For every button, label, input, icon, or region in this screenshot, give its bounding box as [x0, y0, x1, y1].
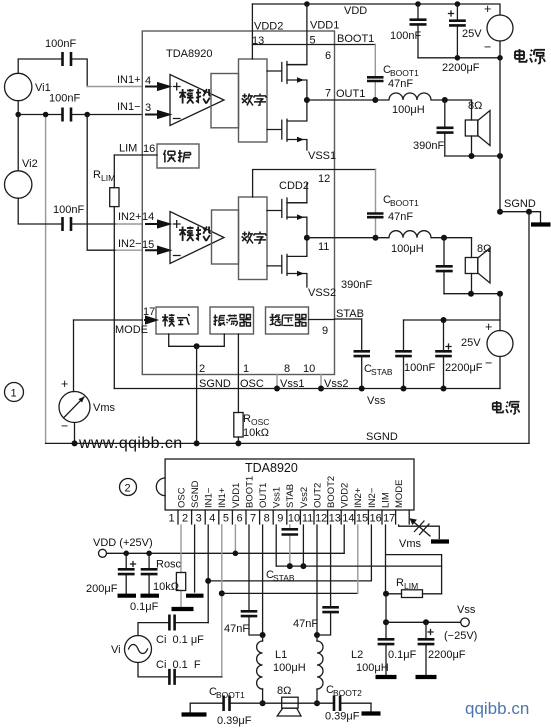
- svg-text:2200μF: 2200μF: [428, 649, 466, 661]
- svg-text:4: 4: [209, 513, 215, 525]
- ground SGND: [186, 594, 204, 598]
- wire pin 3 IN1-: [207, 525, 209, 623]
- wire IN1- rail: [18, 114, 142, 116]
- svg-text:14: 14: [142, 211, 154, 223]
- capacitor 2200uF supply: [456, 4, 458, 58]
- op-amp ch2 (analog): [170, 212, 224, 264]
- svg-text:10: 10: [303, 363, 315, 375]
- svg-text:VSS1: VSS1: [308, 150, 336, 162]
- svg-text:390nF: 390nF: [341, 279, 372, 291]
- svg-text:qqibb.cn: qqibb.cn: [465, 699, 529, 718]
- mode/osc ground bus: [169, 334, 225, 346]
- wire SGND to bottom rail: [528, 212, 530, 444]
- svg-text:100nF: 100nF: [390, 30, 421, 42]
- svg-text:Vi: Vi: [111, 644, 121, 656]
- svg-text:IN1+: IN1+: [217, 487, 228, 508]
- svg-text:IN2+: IN2+: [118, 211, 142, 223]
- oscillator box: [210, 307, 254, 334]
- wire speaker return ch2: [444, 293, 500, 295]
- resistor RLIM: [113, 155, 115, 389]
- MOSFET Q4 low-side ch2: [281, 255, 283, 273]
- svg-text:OUT2: OUT2: [312, 483, 323, 508]
- pin 15 arrow: [145, 247, 169, 254]
- svg-text:STAB: STAB: [371, 367, 393, 377]
- svg-text:3: 3: [196, 513, 202, 525]
- capacitor 100nF supply: [417, 4, 419, 58]
- ground right: [370, 703, 372, 711]
- wire pin 17 MODE to probe: [399, 525, 440, 539]
- wire Vi1 top to cap: [18, 59, 62, 73]
- pin 3 arrow: [145, 111, 169, 118]
- svg-text:CDD2: CDD2: [279, 180, 309, 192]
- ground 0.1uF: [141, 594, 160, 598]
- svg-text:−: −: [485, 356, 492, 370]
- svg-text:BOOT1: BOOT1: [390, 68, 419, 78]
- speaker 8ohm ch1: [471, 100, 473, 156]
- svg-text:BOOT1: BOOT1: [244, 476, 255, 508]
- svg-text:+: +: [484, 2, 491, 16]
- svg-text:3: 3: [145, 102, 151, 114]
- svg-text:−: −: [484, 40, 491, 54]
- svg-text:Vi2: Vi2: [22, 158, 38, 170]
- svg-text:+: +: [61, 377, 68, 391]
- terminal Vss: [461, 618, 470, 627]
- svg-text:47nF: 47nF: [224, 623, 249, 635]
- pin 14 arrow: [145, 221, 169, 228]
- svg-text:100μH: 100μH: [356, 662, 389, 674]
- regulator box: [266, 307, 309, 334]
- wire SGND node to supply2: [499, 294, 501, 331]
- node OUT2: [304, 235, 310, 241]
- svg-text:R: R: [243, 413, 251, 425]
- svg-text:0.39μF: 0.39μF: [325, 711, 360, 723]
- svg-text:Vms: Vms: [93, 402, 116, 414]
- svg-text:IN1+: IN1+: [117, 74, 141, 86]
- wire pin 5 VDD1: [234, 525, 236, 553]
- svg-text:IN1−: IN1−: [204, 487, 215, 508]
- svg-text:IN2+: IN2+: [353, 487, 364, 508]
- svg-text:11: 11: [318, 241, 329, 253]
- svg-text:STAB: STAB: [285, 484, 296, 508]
- svg-text:BOOT1: BOOT1: [216, 690, 245, 700]
- power label: [515, 49, 527, 62]
- svg-text:16: 16: [143, 143, 155, 155]
- inductor L2 100uH: [316, 635, 318, 703]
- svg-text:10: 10: [288, 513, 300, 525]
- wire caps bottom: [418, 57, 500, 59]
- svg-text:13: 13: [329, 513, 341, 525]
- Vss rail: [114, 388, 500, 390]
- svg-text:www.qqibb.cn: www.qqibb.cn: [78, 435, 183, 452]
- svg-text:9: 9: [277, 513, 283, 525]
- svg-text:8: 8: [284, 363, 290, 375]
- svg-text:Ci 0.1 μF: Ci 0.1 μF: [156, 634, 204, 646]
- svg-text:47nF: 47nF: [388, 211, 413, 223]
- svg-text:OUT1: OUT1: [336, 88, 365, 100]
- power label bottom: [493, 401, 504, 412]
- svg-text:5: 5: [223, 513, 229, 525]
- wire pin 4 IN1+: [221, 525, 223, 677]
- wire pin 11 OUT2: [316, 525, 318, 635]
- capacitor 200uF: [125, 553, 127, 593]
- wire VDD rail: [107, 552, 345, 554]
- BOOT1 wire pin 6: [252, 44, 375, 46]
- capacitor 390nF ch1: [444, 100, 446, 156]
- svg-text:0.1μF: 0.1μF: [388, 649, 417, 661]
- svg-text:OSC: OSC: [177, 487, 188, 508]
- svg-text:390nF: 390nF: [413, 140, 444, 152]
- ground left: [189, 703, 191, 712]
- svg-text:25V: 25V: [462, 28, 482, 40]
- svg-text:VDD (+25V): VDD (+25V): [93, 537, 153, 549]
- svg-text:13: 13: [252, 35, 264, 47]
- VDD top rail: [252, 4, 500, 15]
- svg-text:2: 2: [125, 483, 131, 495]
- node SGND: [497, 209, 503, 215]
- op-amp ch1 (analog): [170, 75, 224, 126]
- capacitor 100nF (IN1-): [63, 108, 72, 122]
- capacitor 390nF ch2: [443, 238, 445, 294]
- svg-text:L2: L2: [351, 649, 363, 661]
- wire pin 8 Vss1: [275, 525, 277, 566]
- wire IN- bus: [208, 525, 371, 581]
- node 2 marker: [120, 479, 137, 496]
- wire pin 10 Vss2: [302, 525, 304, 566]
- svg-text:1: 1: [168, 513, 174, 525]
- svg-text:4: 4: [145, 75, 151, 87]
- resistor RLIM: [402, 590, 423, 598]
- capacitor 100nF stab: [403, 320, 405, 389]
- svg-text:(−25V): (−25V): [444, 630, 477, 642]
- source Vi2: [17, 115, 19, 171]
- svg-text:17: 17: [383, 513, 395, 525]
- wire Vi top / capacitor Ci 0.1uF: [138, 623, 208, 636]
- ground 200uF: [118, 594, 137, 598]
- capacitor CBOOT2 47nF: [375, 170, 377, 238]
- MOSFET Q2 low-side: [281, 120, 283, 139]
- speaker 8ohm btm: [282, 697, 298, 708]
- source Vi: [125, 636, 152, 663]
- speaker 8ohm ch2: [471, 238, 473, 294]
- capacitor 100nF (IN1+): [63, 52, 72, 66]
- svg-text:MODE: MODE: [115, 324, 148, 336]
- wire cap to IN1+ corner: [72, 59, 88, 87]
- svg-text:STAB: STAB: [273, 573, 295, 583]
- svg-text:VDD1: VDD1: [231, 483, 242, 508]
- wire pin 9 STAB / capacitor CSTAB: [289, 525, 291, 566]
- wire Vss node: [385, 594, 387, 639]
- svg-text:−: −: [61, 419, 68, 433]
- wire IN+ bus: [222, 592, 358, 594]
- Vss rail: [276, 565, 441, 567]
- wire IN1+ to pin 4: [87, 86, 142, 88]
- svg-text:Ci 0.1 F: Ci 0.1 F: [156, 659, 201, 671]
- pin numbers: [168, 513, 395, 525]
- wire pin 12 BOOT2 / capacitor 47nF: [317, 525, 331, 635]
- svg-text:14: 14: [342, 513, 354, 525]
- svg-text:VSS2: VSS2: [308, 287, 336, 299]
- svg-text:R: R: [396, 577, 404, 589]
- IC2 outline TDA8920: [165, 459, 414, 510]
- svg-text:VDD2: VDD2: [340, 483, 351, 508]
- svg-text:OSC: OSC: [251, 417, 269, 427]
- SGND bottom rail: [46, 442, 529, 444]
- wire pin 16 LIM: [386, 525, 442, 594]
- svg-text:8Ω: 8Ω: [477, 243, 491, 255]
- svg-text:0.39μF: 0.39μF: [217, 715, 252, 727]
- LIM wire pin 16: [114, 154, 157, 156]
- svg-text:100μH: 100μH: [392, 104, 425, 116]
- svg-text:Vss2: Vss2: [299, 487, 310, 508]
- digital box ch1: [239, 59, 268, 142]
- svg-text:8Ω: 8Ω: [468, 100, 482, 112]
- ground Rosc: [172, 607, 194, 611]
- wire pin 2 SGND: [196, 346, 198, 443]
- ground Vms probe: [431, 539, 449, 543]
- svg-text:47nF: 47nF: [388, 78, 413, 90]
- inductor L 100uH ch2: [376, 231, 472, 238]
- connector box ch2: [212, 210, 239, 264]
- pin separators: [178, 510, 409, 524]
- svg-text:7: 7: [325, 88, 331, 100]
- svg-text:10kΩ: 10kΩ: [243, 427, 269, 439]
- svg-text:47nF: 47nF: [293, 618, 318, 630]
- svg-text:LIM: LIM: [119, 143, 137, 155]
- MOSFET Q3 high-side ch2: [281, 200, 283, 218]
- svg-text:2: 2: [182, 513, 188, 525]
- svg-text:15: 15: [356, 513, 368, 525]
- speaker wire bottom: [190, 702, 371, 704]
- svg-text:LIM: LIM: [404, 581, 418, 591]
- svg-text:15: 15: [142, 239, 154, 251]
- wire pin 2 SGND: [194, 525, 196, 592]
- svg-text:2200μF: 2200μF: [442, 62, 480, 74]
- MODE wire pin 17: [74, 319, 143, 321]
- svg-text:8Ω: 8Ω: [277, 685, 291, 697]
- pin 13 wire VDD2: [251, 4, 253, 59]
- svg-text:IN2−: IN2−: [118, 238, 142, 250]
- meter Vms probe: [412, 520, 431, 536]
- svg-text:10kΩ: 10kΩ: [153, 581, 179, 593]
- svg-text:1: 1: [11, 388, 17, 400]
- svg-text:100μH: 100μH: [391, 243, 424, 255]
- pin 5 wire VDD1: [287, 4, 307, 65]
- svg-text:100nF: 100nF: [53, 204, 84, 216]
- pin 4 arrow: [145, 83, 169, 90]
- svg-text:VDD1: VDD1: [310, 20, 339, 32]
- svg-text:BOOT2: BOOT2: [333, 688, 362, 698]
- wire supply minus down: [499, 41, 501, 212]
- svg-text:200μF: 200μF: [86, 583, 118, 595]
- mode box: [156, 307, 198, 334]
- svg-text:12: 12: [315, 513, 327, 525]
- svg-text:2200μF: 2200μF: [445, 362, 483, 374]
- svg-text:TDA8920: TDA8920: [245, 461, 298, 475]
- meter Vms: [73, 320, 75, 392]
- wire pin 13 VDD2: [343, 525, 345, 553]
- svg-text:VDD: VDD: [344, 5, 367, 17]
- supply source 25V top: [487, 15, 513, 41]
- ground bar: [531, 222, 551, 226]
- source Vi1: [5, 73, 32, 100]
- terminal VDD: [99, 549, 107, 557]
- svg-text:16: 16: [369, 513, 381, 525]
- svg-text:LIM: LIM: [101, 173, 115, 183]
- node 1 marker: [5, 383, 24, 402]
- svg-text:TDA8920: TDA8920: [166, 48, 212, 60]
- svg-text:12: 12: [318, 173, 330, 185]
- svg-text:6: 6: [325, 50, 331, 62]
- svg-text:R: R: [93, 169, 101, 181]
- wire pin 7 OUT1: [262, 525, 264, 635]
- capacitor CBOOT2 0.39uF: [334, 696, 340, 712]
- svg-text:6: 6: [236, 513, 242, 525]
- digital box ch2: [239, 197, 268, 280]
- wire Vi2 bottom to IN2+: [18, 198, 116, 224]
- svg-text:25V: 25V: [461, 337, 481, 349]
- wire pin 1 OSC / resistor ROSC: [237, 334, 239, 443]
- svg-text:100nF: 100nF: [404, 362, 435, 374]
- svg-text:MODE: MODE: [394, 480, 405, 509]
- svg-text:100μH: 100μH: [273, 662, 306, 674]
- svg-text:IN2−: IN2−: [367, 487, 378, 508]
- svg-text:100nF: 100nF: [45, 38, 76, 50]
- capacitor 2200uF stab: [443, 320, 445, 389]
- svg-text:9: 9: [322, 325, 328, 337]
- svg-text:7: 7: [250, 513, 256, 525]
- svg-text:Vms: Vms: [399, 538, 422, 550]
- svg-text:1: 1: [243, 363, 249, 375]
- pin 10 Vss2 stub: [320, 375, 322, 389]
- IC1 outline TDA8920: [142, 31, 334, 375]
- wire speaker return ch1: [445, 155, 500, 157]
- svg-text:SGND: SGND: [190, 480, 201, 508]
- svg-text:Vss1: Vss1: [272, 487, 283, 508]
- wire Vi bottom / capacitor Ci 0.1uF (2): [138, 663, 222, 677]
- svg-text:+: +: [485, 320, 492, 334]
- svg-text:LIM: LIM: [380, 492, 391, 508]
- svg-text:OUT1: OUT1: [258, 483, 269, 508]
- svg-text:SGND: SGND: [504, 198, 536, 210]
- wire ground branch (gray): [45, 115, 47, 444]
- resistor Rosc: [180, 525, 182, 607]
- pin name labels rotated: [177, 476, 406, 508]
- MOSFET Q1 high-side: [281, 63, 283, 82]
- pin 8 Vss1 stub: [276, 375, 278, 389]
- capacitor CSTAB: [361, 319, 363, 389]
- svg-text:2: 2: [199, 363, 205, 375]
- svg-text:VDD2: VDD2: [254, 21, 283, 33]
- capacitor 0.1uF vdd: [148, 553, 150, 593]
- svg-text:IN1−: IN1−: [117, 101, 141, 113]
- caps top rail: [404, 319, 501, 321]
- svg-text:0.1μF: 0.1μF: [130, 601, 159, 613]
- svg-text:Vss: Vss: [457, 604, 476, 616]
- connector box ch1: [211, 74, 239, 128]
- svg-text:Vss: Vss: [367, 395, 386, 407]
- capacitor CBOOT1 47nF: [374, 45, 376, 101]
- inductor L 100uH ch1: [375, 93, 471, 100]
- supply source 25V bottom: [487, 331, 513, 357]
- capacitor 100nF (IN2+): [63, 217, 72, 231]
- svg-text:L1: L1: [275, 649, 287, 661]
- capacitor 2200uF vss: [425, 622, 427, 675]
- capacitor 0.1uF vss: [378, 639, 395, 644]
- svg-text:100nF: 100nF: [49, 93, 80, 105]
- capacitor CBOOT1 0.39uF: [224, 696, 230, 712]
- wire pin 6 BOOT1 / capacitor 47nF: [249, 525, 263, 635]
- svg-text:8: 8: [264, 513, 270, 525]
- STAB wire pin 9: [309, 318, 362, 321]
- svg-text:BOOT1: BOOT1: [337, 33, 374, 45]
- svg-text:BOOT1: BOOT1: [390, 198, 419, 208]
- svg-text:BOOT2: BOOT2: [326, 476, 337, 508]
- wire IN2- branch: [87, 115, 116, 251]
- inductor L1 100uH: [262, 635, 264, 703]
- node CDD2 stub: [287, 183, 307, 202]
- node OUT1: [304, 97, 310, 103]
- svg-text:17: 17: [143, 306, 155, 318]
- svg-text:SGND: SGND: [366, 431, 398, 443]
- node junction Vi1 bottom: [17, 101, 19, 115]
- svg-text:11: 11: [302, 513, 313, 525]
- svg-text:STAB: STAB: [336, 308, 364, 320]
- protection box: [157, 144, 199, 168]
- svg-text:Rosc: Rosc: [156, 559, 182, 571]
- BOOT2 wire pin 12: [253, 170, 376, 198]
